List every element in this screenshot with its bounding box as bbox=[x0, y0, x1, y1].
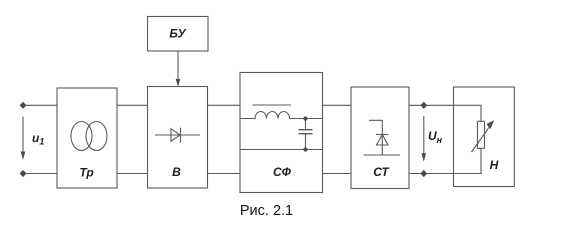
block Tr (transformer) bbox=[57, 88, 117, 188]
junction dot cap top bbox=[303, 116, 307, 120]
transformer winding right bbox=[86, 122, 107, 151]
arrowhead Un bbox=[422, 153, 427, 162]
inductor coil bbox=[240, 112, 323, 119]
junction dot cap bottom bbox=[303, 147, 307, 151]
svg-text:Рис. 2.1: Рис. 2.1 bbox=[240, 203, 293, 219]
capacitor bottom lead bbox=[305, 134, 307, 150]
wire top rail: V to SF bbox=[208, 104, 241, 106]
Un arrow line bbox=[423, 116, 425, 155]
zener triangle bbox=[377, 135, 389, 146]
diode cathode bar bbox=[180, 128, 182, 143]
wire bottom rail: Tr to V bbox=[117, 173, 148, 175]
svg-text:БУ: БУ bbox=[169, 27, 186, 41]
zener bottom rail bbox=[364, 154, 401, 156]
wire top rail: terminal to Tr bbox=[23, 104, 57, 106]
wire bottom rail: terminal to Tr bbox=[23, 173, 57, 175]
wire bottom rail: V to SF bbox=[208, 173, 241, 175]
block SF (smoothing filter) bbox=[240, 73, 323, 193]
inductor core line bbox=[253, 104, 292, 106]
svg-text:СТ: СТ bbox=[373, 165, 390, 179]
block V (rectifier) bbox=[148, 87, 208, 189]
wire top rail: SF to ST bbox=[323, 104, 352, 106]
filter bottom rail bbox=[240, 149, 323, 151]
wire bottom rail: SF to ST bbox=[323, 173, 352, 175]
input terminal bottom bbox=[20, 170, 27, 177]
output terminal bottom bbox=[420, 170, 427, 177]
load top lead bbox=[454, 105, 482, 121]
arrowhead u1 bbox=[21, 152, 26, 161]
wire top rail: Tr to V bbox=[117, 104, 148, 106]
block N (load) bbox=[454, 87, 515, 187]
load resistor body bbox=[478, 121, 485, 148]
block ST (stabilizer) bbox=[351, 87, 409, 189]
arrowhead load variable resistor bbox=[487, 120, 495, 129]
load bottom lead bbox=[454, 148, 482, 173]
capacitor plates bbox=[299, 129, 313, 131]
capacitor top lead bbox=[305, 119, 307, 130]
output terminal top bbox=[420, 102, 427, 109]
zener cathode bar bbox=[376, 134, 389, 136]
svg-text:Н: Н bbox=[490, 158, 499, 172]
zener lead to rail bbox=[381, 135, 383, 156]
arrowhead BU to V bbox=[176, 79, 181, 87]
block BU (control unit) bbox=[148, 17, 209, 52]
wire bottom rail: ST to N bbox=[409, 173, 454, 175]
zener top bent lead bbox=[369, 120, 382, 134]
input terminal top bbox=[20, 102, 27, 109]
wire top rail: ST to N bbox=[409, 104, 454, 106]
svg-text:Тр: Тр bbox=[79, 166, 93, 180]
wire BU to V arrow line bbox=[177, 51, 179, 80]
u1 arrow line bbox=[22, 117, 24, 154]
load variable arrow line bbox=[472, 126, 491, 152]
diode triangle bbox=[171, 129, 180, 142]
diode lead line bbox=[155, 134, 200, 136]
transformer winding left bbox=[71, 122, 92, 151]
svg-text:СФ: СФ bbox=[273, 165, 292, 179]
svg-text:В: В bbox=[172, 165, 181, 179]
